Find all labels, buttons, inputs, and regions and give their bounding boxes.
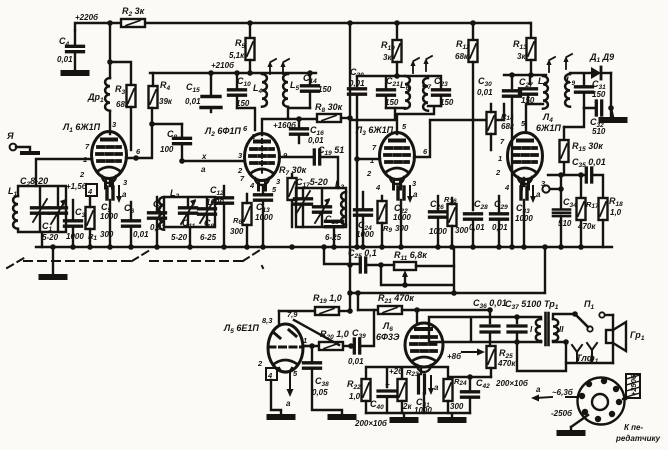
wire grid line V1-V2 — [182, 160, 244, 162]
resistor R2 — [121, 6, 145, 27]
svg-text:68к: 68к — [455, 52, 469, 61]
resistor R24 — [444, 377, 468, 413]
wire tank1 frame — [18, 186, 66, 247]
wire anode loop box — [429, 317, 541, 342]
variable capacitor C11 — [180, 199, 197, 230]
inductor L1 — [8, 186, 18, 229]
wire R11 loop — [381, 247, 454, 293]
capacitor C15 — [185, 70, 221, 112]
junction C35a — [558, 172, 564, 178]
junction jack — [558, 186, 564, 192]
capacitor C6 — [123, 202, 150, 247]
resistor R10 — [381, 20, 402, 76]
svg-text:0,05: 0,05 — [312, 388, 328, 397]
resistor R23 — [398, 368, 420, 413]
svg-text:х: х — [201, 152, 207, 161]
potentiometer R11 — [378, 250, 454, 285]
svg-text:3к: 3к — [517, 52, 526, 61]
tube V6 — [405, 323, 443, 372]
svg-text:6-25: 6-25 — [200, 233, 217, 242]
diode D1 D9 — [570, 52, 614, 79]
wire R3 bottom — [130, 107, 132, 150]
svg-text:4: 4 — [249, 181, 255, 190]
ground cathode a — [393, 419, 416, 421]
svg-text:6Ж1П: 6Ж1П — [536, 123, 561, 133]
svg-text:4: 4 — [267, 371, 273, 380]
capacitor C22 cathode — [393, 179, 418, 247]
svg-text:а: а — [536, 385, 541, 394]
junction anode2 — [149, 121, 155, 127]
trimmer arrow IF3b — [563, 54, 572, 69]
svg-text:0,01: 0,01 — [469, 223, 485, 232]
inductor L5 — [283, 74, 299, 107]
svg-text:300: 300 — [395, 224, 409, 233]
capacitor C21 — [378, 76, 401, 108]
capacitor C26 — [429, 196, 447, 247]
svg-text:2: 2 — [366, 169, 372, 178]
capacitor C8 — [160, 124, 191, 161]
trimmer arrow IF3a — [546, 57, 555, 72]
capacitor C34 — [553, 197, 577, 228]
label K peredatchiku — [615, 423, 661, 443]
resistor R22 — [347, 379, 371, 413]
svg-text:а: а — [413, 190, 418, 199]
svg-text:39к: 39к — [159, 97, 173, 106]
svg-text:+210б: +210б — [211, 61, 235, 70]
svg-text:~6,3б: ~6,3б — [552, 388, 574, 397]
wire output loop — [517, 342, 566, 371]
svg-text:150: 150 — [318, 85, 332, 94]
svg-text:5-20: 5-20 — [171, 233, 188, 242]
capacitor C38 — [304, 343, 343, 414]
wire R15 top — [564, 108, 584, 127]
svg-text:150: 150 — [385, 98, 399, 107]
svg-text:1000: 1000 — [356, 230, 374, 239]
resistor R6 — [230, 194, 252, 247]
capacitor C16 — [291, 116, 325, 145]
svg-text:300: 300 — [100, 230, 114, 239]
pin 4 box V1 — [86, 184, 97, 196]
wire IF1 bottoms — [237, 108, 310, 130]
node x test point — [201, 152, 207, 174]
capacitor C12 — [206, 185, 233, 247]
svg-text:4: 4 — [504, 183, 510, 192]
resistor R17 — [577, 172, 600, 247]
trimmer arrow IF1b — [280, 59, 289, 74]
svg-text:6Ф3Э: 6Ф3Э — [376, 332, 400, 342]
svg-text:4: 4 — [375, 183, 381, 192]
svg-text:а: а — [122, 190, 127, 199]
wire screen V2 — [262, 119, 299, 135]
svg-text:0,01: 0,01 — [185, 97, 201, 106]
wire R4 leads — [152, 73, 154, 86]
capacitor C36 — [473, 298, 507, 347]
svg-text:8,3: 8,3 — [262, 316, 273, 325]
inductor L2 — [159, 188, 179, 230]
svg-text:II: II — [559, 325, 564, 334]
capacitor C30 — [477, 75, 521, 247]
inductor L3 — [335, 179, 346, 225]
svg-text:68к: 68к — [501, 122, 515, 131]
capacitor C23 — [433, 76, 454, 107]
svg-text:1: 1 — [498, 154, 502, 163]
variable capacitor tuning — [50, 199, 67, 224]
wire osc tank frame — [296, 188, 346, 247]
wire +210V rail — [150, 72, 316, 74]
svg-text:редатчику: редатчику — [615, 434, 661, 443]
ground detector — [602, 108, 625, 120]
box +250V — [623, 374, 640, 399]
wire IF2 secondary to grid — [386, 106, 441, 134]
svg-text:0,01: 0,01 — [492, 223, 508, 232]
ground V5a — [270, 416, 293, 418]
svg-text:+250б: +250б — [629, 374, 638, 396]
svg-text:4: 4 — [87, 187, 93, 196]
svg-text:3к: 3к — [383, 53, 392, 62]
junction rail x350 — [347, 20, 353, 26]
capacitor C5 cathode — [100, 180, 127, 247]
junction af2 — [355, 290, 361, 296]
resistor R13 — [513, 23, 536, 75]
resistor R8 — [299, 102, 350, 122]
svg-text:510: 510 — [592, 127, 606, 136]
tube V2 — [245, 134, 280, 191]
svg-text:200×10б: 200×10б — [354, 419, 388, 428]
resistor R19 — [279, 293, 353, 315]
junction screen column — [347, 115, 353, 121]
wire main bus — [36, 246, 612, 248]
junction C14 top — [307, 70, 313, 76]
wire detector column — [584, 73, 611, 117]
svg-text:1,0: 1,0 — [349, 392, 361, 401]
capacitor C24 — [355, 192, 375, 247]
junction af1 — [451, 290, 457, 296]
ground main — [42, 247, 65, 277]
svg-text:+: + — [385, 380, 390, 389]
svg-text:6-25: 6-25 — [325, 233, 342, 242]
resistor R5 — [229, 20, 255, 73]
svg-text:510: 510 — [558, 219, 572, 228]
svg-text:5-20: 5-20 — [42, 233, 59, 242]
trimmer arrow IF2b — [423, 56, 432, 71]
choke Dr1 — [87, 78, 110, 111]
svg-text:470к: 470к — [577, 222, 596, 231]
junction R25 bottom — [467, 374, 473, 380]
wire IF1 top — [237, 73, 310, 88]
arrow a V5 — [286, 372, 294, 408]
svg-text:1,0: 1,0 — [610, 208, 622, 217]
capacitor C37 — [505, 299, 541, 345]
svg-text:300: 300 — [455, 226, 469, 235]
tube V5 magic eye — [268, 324, 303, 372]
pin 4 box V5 — [266, 368, 277, 380]
svg-text:1000: 1000 — [100, 212, 118, 221]
resistor R4 — [149, 80, 173, 108]
junction IF2 — [394, 73, 400, 79]
capacitor C25 — [321, 244, 381, 272]
trimmer C1 — [32, 199, 53, 233]
resistor R3 — [115, 84, 136, 109]
capacitor C18 — [325, 214, 343, 227]
headphone jacks Tlf1 — [553, 339, 613, 365]
svg-text:а: а — [434, 383, 439, 392]
tube V1 — [92, 132, 127, 189]
transformer Tr1 — [517, 299, 564, 345]
inductor L8 — [538, 76, 548, 109]
capacitor C7 — [149, 197, 167, 247]
switch P1 — [553, 299, 613, 332]
antenna A — [6, 131, 38, 153]
capacitor C19 — [279, 145, 344, 188]
capacitor C13 — [255, 186, 274, 247]
socket pins — [579, 378, 622, 422]
wire top rail — [75, 23, 530, 30]
wire V6 grid — [416, 310, 418, 324]
svg-text:2к: 2к — [402, 402, 412, 411]
svg-text:2: 2 — [257, 359, 263, 368]
capacitor C29 — [491, 196, 509, 247]
wire tank2 frame — [164, 197, 215, 247]
svg-text:1: 1 — [370, 156, 374, 165]
wire cathode ground bus — [366, 413, 470, 417]
wire IF2 top — [357, 76, 441, 88]
capacitor C20 — [349, 67, 366, 247]
wire V3 anode — [414, 104, 504, 157]
svg-text:150: 150 — [236, 99, 250, 108]
capacitor C10 — [229, 76, 252, 108]
svg-text:1000: 1000 — [429, 227, 447, 236]
svg-text:+8б: +8б — [447, 352, 462, 361]
wire AF feed — [350, 247, 545, 310]
svg-text:470к: 470к — [497, 359, 516, 368]
junction R11 wiper — [402, 282, 408, 288]
ground under C4 — [64, 72, 87, 74]
capacitor C39 — [348, 310, 374, 366]
label 6.3V heater — [531, 385, 578, 402]
resistor R20 — [303, 329, 354, 350]
resistor R15 — [560, 127, 604, 175]
svg-text:300: 300 — [450, 402, 464, 411]
svg-text:300: 300 — [230, 227, 244, 236]
svg-text:2: 2 — [495, 168, 501, 177]
junction IF3 — [509, 72, 515, 78]
speaker Gr1 — [606, 315, 645, 363]
inductor L4 — [253, 74, 267, 107]
wire V3 grid left — [357, 158, 380, 160]
wire V5 grid — [303, 345, 305, 347]
wire grid V4 — [526, 104, 543, 132]
resistor R14 — [487, 104, 515, 150]
svg-text:а: а — [286, 399, 291, 408]
svg-text:0,01: 0,01 — [349, 79, 365, 88]
junction R3 tap — [107, 59, 113, 65]
capacitor C14 — [302, 73, 332, 108]
svg-text:-250б: -250б — [551, 409, 573, 418]
svg-text:150: 150 — [592, 90, 606, 99]
trimmer arrow IF1a — [267, 59, 276, 74]
junction bus x545 — [542, 244, 548, 250]
capacitor C32 — [590, 101, 614, 136]
svg-text:+2б: +2б — [389, 367, 404, 376]
svg-text:100: 100 — [160, 145, 174, 154]
resistor R1 — [86, 198, 114, 247]
capacitor C41 cathode — [414, 375, 439, 415]
svg-text:1000: 1000 — [206, 198, 224, 207]
junction rail/choke — [107, 20, 113, 26]
resistor R25 — [487, 346, 517, 377]
wire IF3 top — [504, 75, 546, 84]
svg-text:а: а — [201, 165, 206, 174]
capacitor C28 — [465, 199, 489, 247]
svg-text:1000: 1000 — [66, 232, 84, 241]
trimmer C9 — [199, 200, 216, 230]
trimmer arrow IF2a — [410, 58, 419, 73]
variable capacitor osc — [314, 198, 331, 223]
svg-text:2: 2 — [79, 170, 85, 179]
resistor R9 — [378, 196, 409, 247]
svg-text:7,9: 7,9 — [287, 310, 298, 319]
wire volume column — [560, 175, 562, 247]
junction IF1b — [234, 70, 240, 76]
resistor R7 — [279, 165, 307, 227]
svg-text:0,01: 0,01 — [348, 357, 364, 366]
junction IF3b — [528, 72, 534, 78]
inductor L7 — [422, 78, 432, 111]
svg-text:1: 1 — [251, 132, 255, 141]
svg-text:0,01: 0,01 — [57, 55, 73, 64]
capacitor C17 trimmer — [295, 177, 328, 227]
jack socket a — [542, 185, 561, 192]
capacitor C40 electrolytic — [370, 380, 396, 413]
inductor L9 — [565, 74, 575, 107]
capacitor C35 — [548, 157, 606, 200]
svg-text:1: 1 — [303, 336, 307, 345]
svg-text:Я: Я — [6, 131, 14, 141]
socket circle — [578, 378, 625, 425]
svg-text:+220б: +220б — [75, 13, 99, 22]
junction anode — [133, 155, 139, 161]
wire AGC column — [472, 62, 474, 210]
wire to choke — [110, 23, 131, 85]
capacitor C33 cathode — [515, 178, 541, 247]
wire cathode bus — [366, 367, 491, 390]
gang dashed line — [7, 250, 263, 268]
input tank L1 C1 — [8, 176, 67, 247]
inductor L6 — [400, 76, 410, 109]
svg-text:1000: 1000 — [393, 213, 411, 222]
resistor R16 — [444, 195, 469, 247]
bus junctions — [50, 244, 584, 250]
resistor R12 — [455, 20, 478, 62]
resistor R21 — [358, 293, 420, 314]
svg-text:1000: 1000 — [515, 214, 533, 223]
svg-text:а: а — [536, 190, 541, 199]
wire choke to tube — [109, 112, 111, 134]
svg-text:+1,5б: +1,5б — [66, 182, 88, 191]
svg-text:К пе-: К пе- — [624, 423, 643, 432]
wire screen column — [350, 23, 395, 311]
wire V5 top leads — [279, 311, 339, 345]
capacitor C27 — [519, 77, 537, 105]
svg-text:0,01: 0,01 — [133, 230, 149, 239]
svg-text:5,1к: 5,1к — [229, 51, 245, 60]
ground cathode b — [441, 419, 464, 421]
wire V6 top feed — [417, 309, 490, 311]
capacitor C31 — [576, 74, 607, 108]
svg-text:0,01: 0,01 — [308, 136, 324, 145]
junction IF1 — [247, 70, 253, 76]
svg-text:68к: 68к — [116, 100, 130, 109]
capacitor C4 — [57, 30, 84, 71]
resistor R18 — [599, 196, 624, 247]
wire V5 pin4 down — [271, 380, 281, 414]
svg-text:1000: 1000 — [255, 213, 273, 222]
junction grid C8 — [179, 158, 185, 164]
junction grid V3 — [354, 156, 360, 162]
wire V1 grid to tank — [36, 159, 92, 186]
capacitor C42 — [462, 378, 491, 413]
wire V1 anode — [126, 108, 182, 158]
svg-text:0,01: 0,01 — [477, 88, 493, 97]
tube V3 — [380, 133, 415, 190]
ground C38 — [331, 416, 354, 418]
tube V4 — [508, 133, 543, 190]
capacitor C3 — [65, 200, 86, 247]
node +8V arrow — [447, 349, 485, 362]
svg-text:200×10б: 200×10б — [495, 379, 529, 388]
ground socket — [560, 415, 589, 433]
